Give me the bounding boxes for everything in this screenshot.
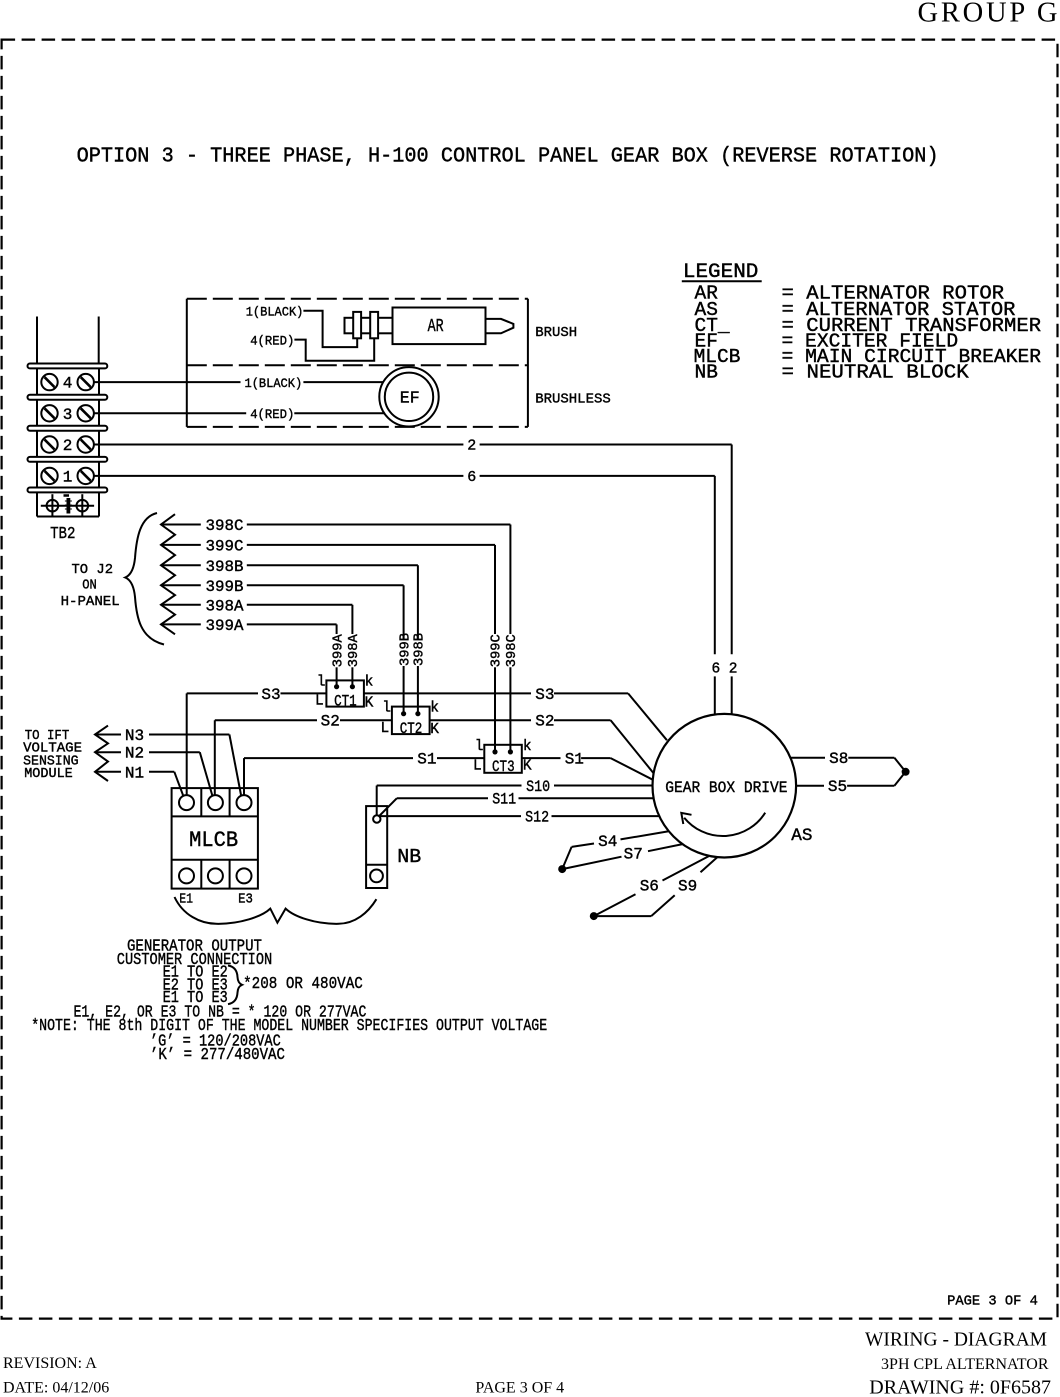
TB2 screw 2L xyxy=(41,436,57,452)
svg-text:S12: S12 xyxy=(525,809,549,827)
svg-text:S6: S6 xyxy=(640,877,659,895)
wire S1 xyxy=(244,751,653,797)
rotation arc arrow xyxy=(681,813,765,836)
legend title xyxy=(682,261,762,284)
svg-text:WIRING - DIAGRAM: WIRING - DIAGRAM xyxy=(865,1330,1047,1351)
IFT arrow zigzag xyxy=(95,726,108,781)
legend row MLCB xyxy=(694,346,1042,368)
wire 1(BLACK) brushless xyxy=(94,376,383,391)
svg-text:GEAR BOX DRIVE: GEAR BOX DRIVE xyxy=(665,779,787,797)
svg-text:DRAWING #: 0F6587: DRAWING #: 0F6587 xyxy=(869,1377,1051,1397)
alternator enclosure box xyxy=(187,299,528,427)
TB2 screw 4L xyxy=(41,374,57,390)
svg-text:399A: 399A xyxy=(330,634,346,668)
svg-text:L: L xyxy=(473,758,482,774)
wire 2 xyxy=(94,438,732,715)
current transformer CT3 xyxy=(473,739,532,776)
wire N3 xyxy=(96,727,242,798)
wire 399B xyxy=(162,578,404,714)
exciter field EF xyxy=(379,367,438,426)
svg-text:NB: NB xyxy=(397,846,421,868)
svg-text:PAGE 3 OF 4: PAGE 3 OF 4 xyxy=(475,1380,564,1397)
svg-text:S2: S2 xyxy=(321,713,340,731)
svg-text:N3: N3 xyxy=(125,727,144,745)
svg-text:S8: S8 xyxy=(829,750,848,768)
wire S10 xyxy=(377,778,653,815)
svg-text:DATE: 04/12/06: DATE: 04/12/06 xyxy=(3,1380,109,1397)
wire 398A xyxy=(162,597,352,686)
wire stub left above TB2 xyxy=(36,317,38,366)
svg-text:S3: S3 xyxy=(261,686,280,704)
svg-text:S4: S4 xyxy=(598,833,617,851)
customer connection leader squiggle xyxy=(175,897,377,924)
svg-text:CT2: CT2 xyxy=(400,720,423,738)
TB2 separator bar 1 xyxy=(28,364,108,369)
svg-text:3: 3 xyxy=(63,406,73,424)
svg-text:399B: 399B xyxy=(206,578,244,596)
svg-text:398A: 398A xyxy=(206,597,244,615)
svg-text:L: L xyxy=(381,721,390,737)
TB2 separator bar 4 xyxy=(28,457,108,462)
svg-text:l: l xyxy=(317,674,326,690)
svg-text:2: 2 xyxy=(63,437,73,455)
rotor shaft xyxy=(345,318,393,334)
alternator stator gear box drive circle xyxy=(653,714,797,858)
svg-text:1: 1 xyxy=(63,469,73,487)
svg-text:BRUSHLESS: BRUSHLESS xyxy=(535,392,611,408)
svg-text:AS: AS xyxy=(791,826,812,846)
svg-text:4(RED): 4(RED) xyxy=(250,407,294,422)
svg-text:k: k xyxy=(430,701,439,717)
svg-text:S10: S10 xyxy=(526,778,550,796)
svg-text:N1: N1 xyxy=(125,764,144,782)
svg-text:1(BLACK): 1(BLACK) xyxy=(246,305,304,320)
svg-text:4: 4 xyxy=(63,375,73,393)
TB2 screw 1L xyxy=(41,468,57,484)
current transformer CT1 xyxy=(315,674,374,711)
svg-text:OPTION 3 - THREE PHASE, H-100: OPTION 3 - THREE PHASE, H-100 CONTROL PA… xyxy=(77,146,939,169)
brush 2 xyxy=(370,312,378,338)
TB2 separator bar 5 xyxy=(28,488,108,493)
alternator rotor AR box xyxy=(393,308,486,345)
svg-text:1(BLACK): 1(BLACK) xyxy=(245,376,303,391)
wire S12 xyxy=(380,809,659,827)
wire S11 xyxy=(378,791,654,818)
legend row EF xyxy=(695,330,959,352)
svg-text:ON: ON xyxy=(82,578,97,594)
label TO IFT VOLTAGE SENSING MODULE xyxy=(23,728,82,782)
wire S2 xyxy=(215,713,654,797)
TB2 ground screw symbol xyxy=(64,496,72,514)
wire 1(BLACK) brush xyxy=(246,305,358,348)
wire 399C xyxy=(162,537,495,752)
svg-text:L: L xyxy=(315,693,324,709)
wire 4(RED) brushless xyxy=(94,407,385,422)
TB2 screw 3R xyxy=(78,405,94,421)
svg-text:AR: AR xyxy=(428,317,444,337)
svg-text:S11: S11 xyxy=(492,791,516,809)
J2 arrow zigzag xyxy=(161,514,175,634)
wire N1 xyxy=(96,764,184,797)
svg-text:6: 6 xyxy=(467,469,476,486)
legend row CT xyxy=(695,315,1042,337)
svg-text:3PH CPL ALTERNATOR: 3PH CPL ALTERNATOR xyxy=(881,1356,1049,1373)
svg-text:N2: N2 xyxy=(125,745,144,763)
svg-text:2: 2 xyxy=(467,438,476,455)
svg-text:NB: NB xyxy=(695,362,718,384)
wire S5 xyxy=(796,772,906,796)
svg-text:399A: 399A xyxy=(206,617,244,635)
svg-text:*NOTE: THE 8th DIGIT OF THE MO: *NOTE: THE 8th DIGIT OF THE MODEL NUMBER… xyxy=(31,1017,547,1036)
NB node xyxy=(373,815,380,822)
wire 398C xyxy=(162,517,510,752)
wire S8 xyxy=(791,750,906,772)
wire S3 xyxy=(187,686,667,796)
svg-text:2: 2 xyxy=(729,661,738,677)
svg-text:398B: 398B xyxy=(412,633,428,666)
wire 399A xyxy=(162,617,337,687)
svg-text:S2: S2 xyxy=(535,713,554,731)
svg-text:k: k xyxy=(365,674,374,690)
svg-text:S1: S1 xyxy=(565,751,584,769)
svg-text:BRUSH: BRUSH xyxy=(535,325,577,341)
svg-text:E3: E3 xyxy=(238,892,253,908)
svg-text:399C: 399C xyxy=(206,537,244,555)
svg-text:398C: 398C xyxy=(206,517,244,535)
svg-text:CT3: CT3 xyxy=(492,758,515,776)
svg-text:k: k xyxy=(523,739,532,755)
svg-text:REVISION: A: REVISION: A xyxy=(3,1355,97,1372)
TB2 separator bar 3 xyxy=(28,426,108,431)
svg-text:PAGE 3 OF 4: PAGE 3 OF 4 xyxy=(947,1293,1038,1309)
svg-text:S3: S3 xyxy=(535,686,554,704)
brace to J2 xyxy=(125,513,164,645)
svg-text:EF: EF xyxy=(400,390,420,409)
wire S6 xyxy=(594,856,710,916)
svg-text:TO J2: TO J2 xyxy=(72,562,114,578)
TB2 screw 4R xyxy=(78,374,94,390)
svg-text:l: l xyxy=(475,739,484,755)
junction dot S8/S5 xyxy=(902,768,910,776)
brush 1 xyxy=(353,312,361,338)
svg-text:H-PANEL: H-PANEL xyxy=(61,594,120,610)
svg-text:*208 OR 480VAC: *208 OR 480VAC xyxy=(243,975,363,994)
TB2 screw 1R xyxy=(78,468,94,484)
TB2 ground terminal right xyxy=(77,494,89,516)
label TO J2 ON H-PANEL xyxy=(61,562,120,610)
svg-text:K: K xyxy=(430,722,439,738)
enclosure divider brush/brushless xyxy=(187,364,528,366)
note brace xyxy=(228,966,242,1005)
wire stub right above TB2 xyxy=(98,317,100,366)
wire 398B xyxy=(162,558,418,714)
svg-text:4(RED): 4(RED) xyxy=(250,333,294,348)
current transformer CT2 xyxy=(381,701,440,739)
wire 6 xyxy=(94,469,715,714)
legend row AS xyxy=(695,299,1016,321)
svg-text:CT1: CT1 xyxy=(334,692,357,710)
terminal block TB2 body xyxy=(37,364,99,517)
svg-text:l: l xyxy=(382,701,391,717)
junction dot S6/S9 xyxy=(590,912,598,920)
svg-text:MODULE: MODULE xyxy=(24,766,73,782)
TB2 separator bar 2 xyxy=(28,395,108,400)
neutral block NB xyxy=(366,806,387,888)
rotor shaft tip xyxy=(486,319,514,333)
TB2 screw 3L xyxy=(41,405,57,421)
wire N2 xyxy=(96,745,213,798)
svg-text:’K’ = 277/480VAC: ’K’ = 277/480VAC xyxy=(150,1046,285,1065)
wire S9 xyxy=(594,857,718,916)
svg-text:398C: 398C xyxy=(504,634,520,667)
svg-text:MLCB: MLCB xyxy=(189,828,238,853)
main circuit breaker MLCB xyxy=(172,788,258,889)
svg-text:S7: S7 xyxy=(624,846,643,864)
svg-text:K: K xyxy=(523,758,532,774)
svg-text:398A: 398A xyxy=(346,634,362,668)
legend row NB xyxy=(695,362,970,384)
TB2 screw 2R xyxy=(78,436,94,452)
svg-text:399C: 399C xyxy=(489,634,505,667)
svg-text:K: K xyxy=(365,696,374,712)
svg-text:TB2: TB2 xyxy=(50,525,75,544)
svg-text:= NEUTRAL BLOCK: = NEUTRAL BLOCK xyxy=(782,362,970,384)
svg-text:398B: 398B xyxy=(206,558,244,576)
svg-text:6: 6 xyxy=(712,661,721,677)
legend row AR xyxy=(695,283,1005,305)
svg-text:S5: S5 xyxy=(828,778,847,796)
TB2 ground terminal left xyxy=(41,494,94,516)
wire S4 xyxy=(562,831,668,869)
svg-text:S1: S1 xyxy=(417,751,436,769)
wire S7 xyxy=(562,844,683,869)
wire 4(RED) brush xyxy=(250,333,374,360)
svg-text:S9: S9 xyxy=(678,877,697,895)
svg-text:E1: E1 xyxy=(179,892,193,908)
junction dot S4/S7 xyxy=(558,865,566,873)
